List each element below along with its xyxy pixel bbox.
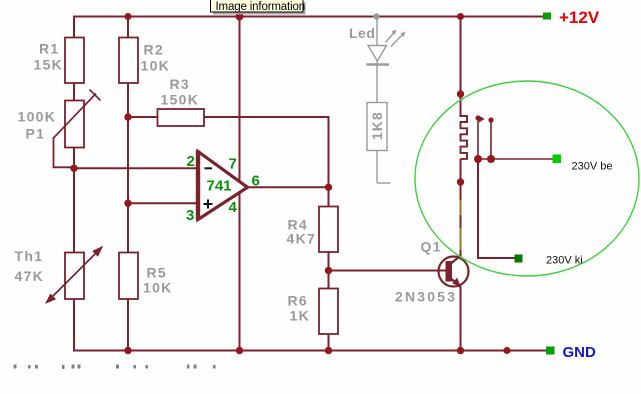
wire contact to 230V be — [478, 158, 553, 160]
junction GND rail / R5 — [124, 347, 131, 354]
svg-text:4K7: 4K7 — [287, 231, 317, 247]
junction node P1 wiper / Th1 / pin 2 — [70, 165, 77, 172]
led arrow head 1 — [392, 30, 397, 36]
svg-text:R6: R6 — [288, 293, 309, 309]
wire R1 to P1 — [73, 83, 75, 102]
junction +12V rail / relay coil — [457, 13, 464, 20]
op-amp U1 741 — [196, 151, 248, 221]
svg-text:150K: 150K — [161, 92, 200, 108]
svg-text:1K: 1K — [290, 308, 311, 324]
wire R3 left — [128, 116, 158, 118]
Th1 arrow head bottom — [47, 295, 55, 302]
svg-text:2N3053: 2N3053 — [395, 289, 457, 305]
labels gray — [15, 25, 458, 324]
ghost LED branch — [367, 18, 404, 183]
svg-text:47K: 47K — [15, 268, 45, 284]
wire Th1 to GND rail — [73, 299, 75, 352]
op-amp U1 triangle — [198, 152, 248, 220]
svg-text:2: 2 — [187, 153, 195, 170]
wire 1K8 bottom stub — [377, 182, 391, 184]
opamp plus — [204, 200, 213, 209]
wire R2 bottom column — [127, 83, 129, 254]
wire opamp pin2 input — [74, 167, 196, 169]
thermistor Th1 arrow — [47, 248, 102, 303]
thermistor Th1 body — [65, 253, 84, 300]
opamp minus — [205, 167, 213, 169]
junction coil top pin — [457, 90, 464, 97]
pad 230V be — [553, 155, 562, 164]
supply pad +12V — [543, 13, 551, 20]
wire left column R1 top — [73, 16, 75, 39]
svg-text:4: 4 — [229, 199, 238, 216]
relay contact arm 1 — [477, 118, 479, 159]
led arrows — [386, 33, 395, 43]
svg-text:10K: 10K — [141, 58, 171, 74]
olive dash 1 — [460, 200, 462, 215]
resistor R1 — [65, 38, 84, 84]
opamp green pin labels — [186, 153, 260, 224]
relay contact arrow — [479, 116, 485, 123]
wire R3 right to output node — [204, 117, 329, 207]
svg-text:10K: 10K — [143, 280, 173, 296]
wire 1K8 bottom — [376, 151, 378, 184]
junction node pin 3 / R5 — [124, 200, 131, 207]
led D1 triangle — [368, 46, 387, 62]
potentiometer P1 wiper — [54, 90, 101, 139]
wire +12V to relay coil — [460, 16, 462, 118]
wire R2 top — [127, 16, 129, 39]
tooltip shadow — [213, 2, 306, 15]
P1 wiper end tick — [90, 90, 101, 101]
wire base Q1 — [329, 270, 447, 272]
svg-text:7: 7 — [229, 156, 237, 173]
svg-text:Led: Led — [349, 25, 375, 41]
transistor Q1 circle — [439, 257, 469, 287]
svg-text:15K: 15K — [34, 57, 64, 73]
led anode wire — [376, 18, 378, 45]
junction output node / R4 — [325, 184, 332, 191]
svg-text:6: 6 — [252, 173, 260, 190]
junction node R2 / R3 — [124, 113, 131, 120]
svg-text:GND: GND — [563, 344, 597, 361]
wire R6 bottom — [328, 334, 330, 351]
resistor 1K8 — [367, 103, 387, 151]
P1 wiper arrow line — [54, 94, 97, 139]
transistor Q1 base bar — [446, 261, 453, 282]
junction GND rail pad stub — [504, 347, 511, 354]
contact arm 2 top terminal — [488, 117, 493, 122]
junction contact NO terminal — [487, 155, 495, 163]
relay coil K1 — [461, 116, 468, 159]
wire coil bottom — [460, 159, 462, 182]
junction contact common / 230V wires — [474, 155, 482, 163]
wire top +12V rail — [73, 16, 544, 18]
tooltip Image information — [211, 0, 304, 12]
resistor R3 — [158, 109, 205, 126]
wire opamp power column — [239, 16, 241, 351]
pad 230V ki — [515, 255, 523, 263]
wire contact to 230V ki — [478, 159, 515, 258]
transistor Q1 emitter arrow — [452, 278, 460, 287]
wire P1 wiper down — [54, 137, 75, 167]
Th1 arrow line — [50, 251, 98, 299]
transistor Q1 collector stroke — [452, 256, 461, 264]
led branch ghost dot on +12V rail — [373, 13, 379, 19]
svg-text:P1: P1 — [26, 126, 46, 142]
wire coil to Q1 collector — [460, 182, 462, 256]
olive dash 2 — [460, 228, 462, 250]
led cathode bar — [367, 63, 390, 66]
supply pad GND — [546, 347, 555, 355]
wire Q1 emitter to GND — [460, 286, 462, 351]
svg-text:230V ki: 230V ki — [546, 255, 583, 267]
junction +12V rail / op-amp pin 7 — [236, 13, 244, 21]
svg-text:R1: R1 — [39, 41, 60, 57]
wire opamp pin3 input — [128, 202, 196, 204]
op-amp U1 left edge bar — [196, 151, 200, 221]
green relay ellipse — [415, 81, 639, 276]
wire node to Th1 — [73, 168, 75, 253]
svg-text:100K: 100K — [18, 109, 57, 125]
Th1 arrow head top — [94, 248, 102, 256]
svg-text:1K8: 1K8 — [369, 111, 385, 140]
junction node R4 / R6 / base — [325, 267, 332, 274]
wire opamp output — [247, 186, 329, 188]
wire olive overlay collector — [460, 200, 462, 250]
junction coil bottom pin — [457, 178, 464, 185]
svg-text:R5: R5 — [147, 265, 168, 281]
svg-text:Q1: Q1 — [421, 239, 442, 255]
junction GND rail / R6 — [325, 347, 332, 354]
junction GND rail / op-amp pin 4 — [236, 347, 243, 354]
resistor R5 — [119, 253, 138, 300]
svg-text:Image information: Image information — [216, 1, 306, 13]
svg-text:+12V: +12V — [559, 8, 600, 27]
svg-text:R2: R2 — [144, 42, 165, 58]
svg-text:230V be: 230V be — [572, 161, 613, 173]
svg-text:Th1: Th1 — [15, 248, 44, 264]
wire led to 1K8 — [376, 61, 378, 103]
svg-text:3: 3 — [186, 207, 194, 224]
potentiometer P1 body — [65, 101, 84, 148]
wire P1 bottom to node — [73, 147, 75, 169]
contact arm 1 top terminal — [475, 115, 480, 120]
resistor R6 — [319, 289, 338, 335]
resistor R2 — [119, 38, 138, 84]
wire bottom GND rail — [73, 350, 546, 352]
svg-text:R3: R3 — [170, 76, 191, 92]
transistor Q1 emitter stroke — [452, 279, 461, 287]
junction +12V rail / R2 — [125, 13, 132, 20]
junction GND rail / Q1 emitter — [457, 347, 464, 354]
resistor R4 — [319, 207, 338, 253]
led arrow head 2 — [401, 32, 406, 38]
relay contact arm 2 — [490, 120, 492, 159]
wire R4 to R6 — [328, 252, 330, 290]
svg-text:741: 741 — [207, 178, 232, 195]
bottom faint marks — [14, 365, 216, 370]
transistor Q1 — [439, 256, 469, 288]
wire R5 bottom — [127, 299, 129, 351]
